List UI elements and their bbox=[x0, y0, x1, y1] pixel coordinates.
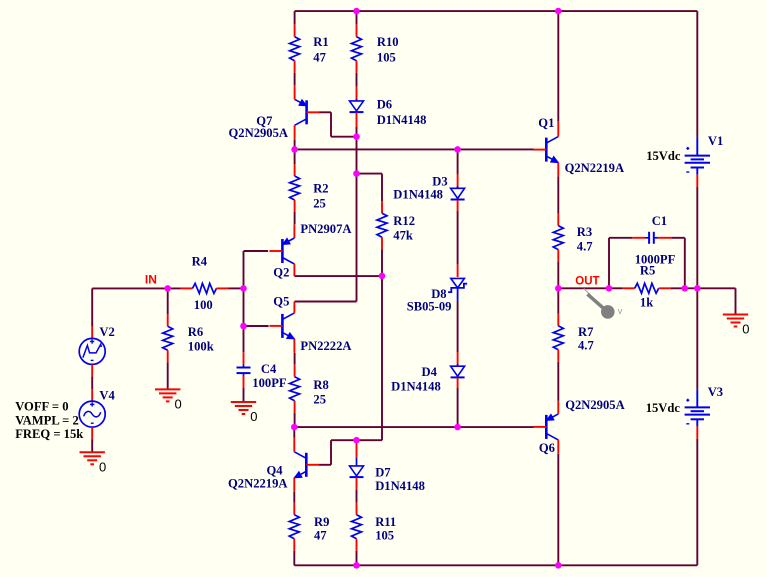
svg-text:VOFF = 0: VOFF = 0 bbox=[15, 400, 68, 414]
svg-text:1k: 1k bbox=[640, 296, 653, 310]
svg-text:R11: R11 bbox=[375, 515, 396, 529]
svg-text:D1N4148: D1N4148 bbox=[377, 113, 427, 127]
svg-text:OUT: OUT bbox=[575, 275, 599, 287]
svg-text:Q2N2219A: Q2N2219A bbox=[565, 161, 624, 175]
svg-text:R7: R7 bbox=[578, 325, 593, 339]
svg-text:PN2907A: PN2907A bbox=[300, 222, 351, 236]
svg-text:D4: D4 bbox=[422, 365, 438, 379]
svg-text:0: 0 bbox=[175, 396, 182, 411]
svg-text:47: 47 bbox=[314, 529, 327, 543]
svg-text:Q2N2219A: Q2N2219A bbox=[228, 477, 287, 491]
svg-text:Q6: Q6 bbox=[539, 441, 555, 455]
svg-text:47: 47 bbox=[313, 50, 326, 64]
svg-text:C4: C4 bbox=[261, 362, 277, 376]
svg-text:Q2: Q2 bbox=[273, 266, 289, 280]
svg-text:Q5: Q5 bbox=[273, 294, 289, 308]
svg-text:Q2N2905A: Q2N2905A bbox=[565, 398, 624, 412]
svg-text:Q2N2905A: Q2N2905A bbox=[229, 126, 288, 140]
svg-text:V1: V1 bbox=[708, 134, 723, 148]
svg-text:D1N4148: D1N4148 bbox=[375, 479, 425, 493]
svg-text:25: 25 bbox=[313, 393, 326, 407]
svg-text:25: 25 bbox=[313, 197, 326, 211]
svg-text:100k: 100k bbox=[188, 339, 214, 353]
svg-text:V3: V3 bbox=[708, 385, 723, 399]
svg-text:V4: V4 bbox=[99, 388, 115, 402]
svg-text:R9: R9 bbox=[314, 515, 329, 529]
svg-text:R12: R12 bbox=[393, 214, 415, 228]
svg-text:15Vdc: 15Vdc bbox=[646, 149, 681, 163]
svg-text:R1: R1 bbox=[313, 35, 328, 49]
svg-text:R6: R6 bbox=[188, 325, 203, 339]
svg-text:R3: R3 bbox=[577, 225, 592, 239]
svg-text:100PF: 100PF bbox=[252, 376, 287, 390]
svg-text:Q4: Q4 bbox=[267, 463, 284, 477]
svg-text:0: 0 bbox=[99, 459, 106, 474]
svg-text:100: 100 bbox=[194, 298, 213, 312]
svg-text:15Vdc: 15Vdc bbox=[646, 401, 681, 415]
svg-text:D7: D7 bbox=[375, 466, 390, 480]
svg-text:SB05-09: SB05-09 bbox=[407, 300, 452, 314]
svg-text:v: v bbox=[618, 306, 623, 317]
svg-text:D1N4148: D1N4148 bbox=[391, 379, 441, 393]
svg-text:4.7: 4.7 bbox=[577, 239, 593, 253]
svg-text:0: 0 bbox=[742, 322, 749, 337]
svg-text:Q1: Q1 bbox=[538, 116, 554, 130]
svg-text:R8: R8 bbox=[313, 378, 328, 392]
svg-text:105: 105 bbox=[375, 529, 394, 543]
svg-text:R5: R5 bbox=[640, 264, 655, 278]
svg-text:FREQ = 15k: FREQ = 15k bbox=[15, 427, 83, 441]
svg-text:VAMPL = 2: VAMPL = 2 bbox=[15, 413, 79, 427]
svg-text:R2: R2 bbox=[313, 181, 328, 195]
svg-text:4.7: 4.7 bbox=[578, 339, 594, 353]
svg-text:D1N4148: D1N4148 bbox=[393, 188, 443, 202]
svg-text:105: 105 bbox=[377, 50, 396, 64]
svg-text:R10: R10 bbox=[377, 35, 399, 49]
svg-text:R4: R4 bbox=[192, 254, 208, 268]
svg-text:D3: D3 bbox=[432, 175, 447, 189]
svg-text:47k: 47k bbox=[393, 228, 413, 242]
svg-text:PN2222A: PN2222A bbox=[300, 339, 351, 353]
svg-text:0: 0 bbox=[250, 409, 257, 424]
svg-text:IN: IN bbox=[145, 273, 157, 287]
svg-text:V2: V2 bbox=[99, 325, 114, 339]
svg-text:C1: C1 bbox=[652, 214, 667, 228]
svg-text:D6: D6 bbox=[377, 97, 392, 111]
